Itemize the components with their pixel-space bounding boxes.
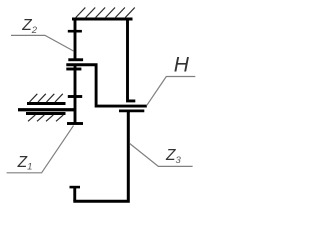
bearing upper bar — [27, 102, 66, 105]
gear Z1 bottom rim bar — [67, 122, 83, 125]
fixed frame top bar — [72, 18, 133, 21]
leader line Z2 — [11, 35, 74, 51]
svg-text:H: H — [174, 53, 190, 76]
gear Z3 rim bar bottom left — [70, 186, 81, 189]
ground hatching above bearing — [30, 94, 63, 102]
central shaft of gear Z1 — [74, 65, 77, 124]
ground hatching below bearing — [28, 115, 63, 121]
leader line H — [147, 77, 196, 106]
carrier H: mesh bar, riser and arm — [66, 65, 147, 106]
gear Z2 rim bar — [68, 58, 83, 61]
leader line Z1 — [7, 126, 74, 173]
frame right leg with foot — [128, 18, 136, 101]
ground hatching top support — [76, 8, 135, 18]
gear Z3 hub bar — [119, 110, 144, 113]
leader line Z3 — [130, 144, 193, 167]
gear Z3 shaft and bottom link — [73, 112, 128, 201]
input shaft horizontal — [18, 108, 75, 111]
gear Z3 left stub — [73, 187, 76, 201]
planet lower mesh bar — [66, 68, 81, 71]
bearing lower bar — [26, 112, 66, 115]
gear tick on Z1 shaft — [68, 95, 82, 98]
frame left leg (shaft of gear Z2) — [74, 18, 77, 60]
gear Z2 upper wheel bar — [68, 30, 82, 33]
